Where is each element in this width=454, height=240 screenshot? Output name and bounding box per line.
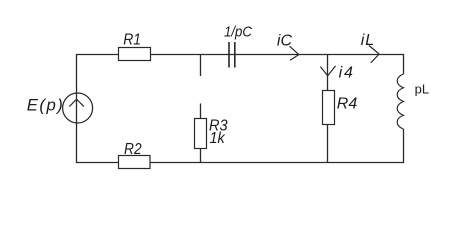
voltage source E1	[63, 93, 93, 123]
wire R3 branch upper	[200, 104, 202, 119]
resistor R4	[323, 91, 335, 125]
svg-text:R2: R2	[124, 141, 142, 158]
inductor L1	[397, 74, 403, 129]
resistor R1	[119, 48, 151, 61]
svg-text:R1: R1	[123, 32, 141, 49]
resistor R2	[119, 156, 151, 169]
wire top right segment	[229, 54, 404, 56]
svg-text:1/pC: 1/pC	[224, 25, 253, 41]
wire top middle segment	[151, 54, 230, 56]
capacitor C1	[229, 42, 235, 68]
svg-text:R4: R4	[337, 95, 358, 112]
resistor R3	[195, 119, 207, 149]
wire R4 branch lower	[327, 125, 329, 163]
wire R4 branch upper	[327, 55, 329, 91]
wire left (source branch)	[76, 55, 78, 163]
svg-text:pL: pL	[415, 81, 429, 96]
svg-text:1k: 1k	[210, 130, 226, 147]
svg-text:i4: i4	[339, 64, 355, 81]
svg-text:iC: iC	[277, 32, 293, 49]
arrow iC	[290, 46, 299, 60]
wire bottom	[76, 162, 404, 164]
svg-text:iL: iL	[361, 32, 375, 49]
svg-text:E(p): E(p)	[27, 95, 65, 114]
wire right lower	[403, 129, 405, 163]
node stub A (below top wire)	[200, 55, 202, 77]
wire R3 branch lower	[200, 149, 202, 163]
wire right upper	[403, 55, 405, 75]
arrow i4	[320, 66, 335, 76]
wire top left segment	[76, 54, 119, 56]
arrow iL	[369, 46, 379, 63]
